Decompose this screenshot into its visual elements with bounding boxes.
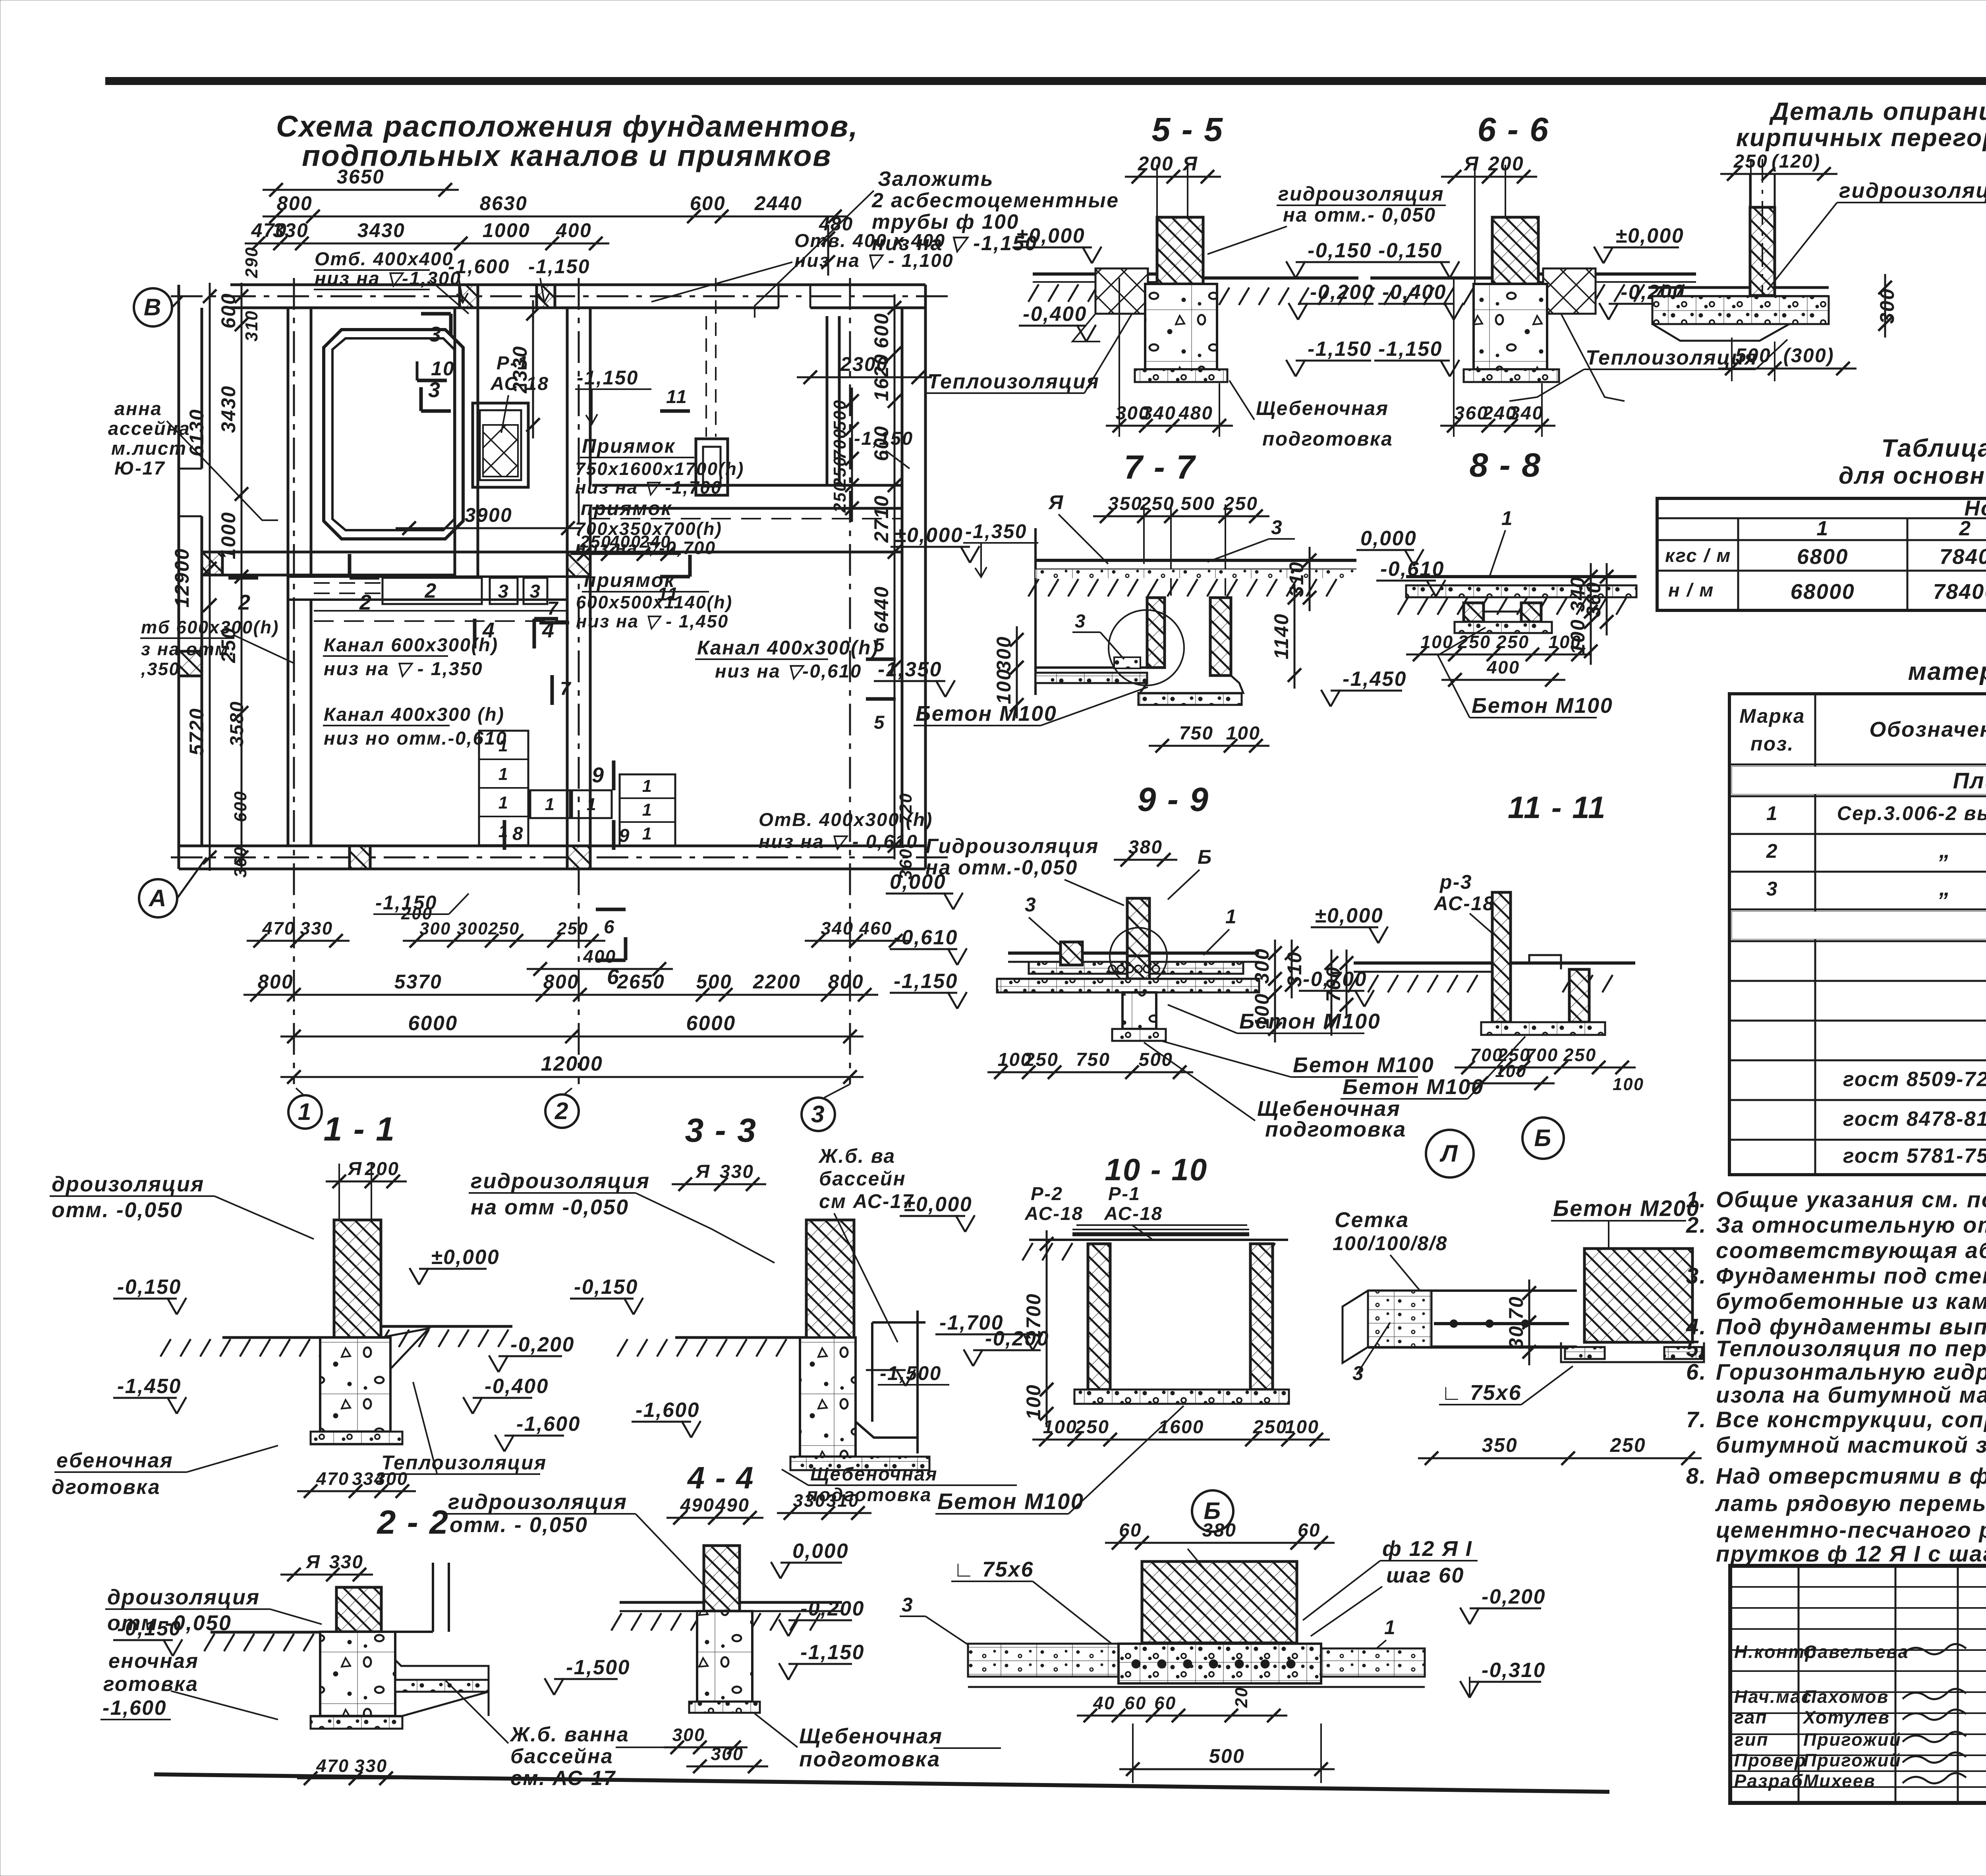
svg-text:-1,600: -1,600	[636, 1398, 700, 1421]
plan axis 2 dashdot	[578, 278, 580, 1084]
svg-text:5370: 5370	[394, 971, 442, 993]
svg-text:Савельева: Савельева	[1803, 1642, 1909, 1662]
svg-text:,350: ,350	[141, 659, 180, 679]
section marks 11	[660, 409, 690, 413]
svg-text:2440: 2440	[754, 192, 803, 214]
svg-text:10: 10	[431, 357, 455, 380]
1-1 level -1.600	[495, 1435, 504, 1451]
plan right vdim col	[894, 294, 896, 859]
svg-text:3: 3	[902, 1594, 914, 1616]
6-6 ground hatch left	[1364, 288, 1374, 305]
svg-text:гост 5781-75: гост 5781-75	[1843, 1144, 1986, 1167]
svg-text:2: 2	[359, 591, 373, 614]
svg-text:250: 250	[488, 919, 520, 938]
3-3 level -1.600	[682, 1421, 691, 1438]
svg-text:Р-1: Р-1	[1108, 1183, 1140, 1204]
svg-text:1: 1	[587, 795, 597, 814]
11-11 step line	[1510, 955, 1561, 969]
wall hatch patch top 1	[460, 285, 478, 308]
svg-text:подготовка: подготовка	[1262, 428, 1393, 450]
svg-text:8.: 8.	[1686, 1463, 1707, 1488]
label 3900 dim	[396, 527, 582, 529]
detail top dim	[1720, 173, 1837, 175]
rebar level -0.200	[1460, 1608, 1470, 1624]
7-7 level -1.450	[1321, 690, 1331, 706]
mesh vert dims	[1528, 1280, 1530, 1336]
title block frame	[1730, 1566, 1986, 1803]
11-11 floor lines	[1354, 961, 1492, 965]
svg-text:250: 250	[1024, 1049, 1059, 1070]
svg-text:4: 4	[482, 618, 496, 642]
svg-text:250: 250	[556, 919, 589, 938]
svg-text:Михеев: Михеев	[1803, 1771, 1876, 1791]
plan top dim row 3650	[263, 189, 459, 191]
interior wall H4	[288, 575, 567, 578]
svg-text:1: 1	[545, 795, 556, 814]
svg-text:1: 1	[298, 1098, 312, 1125]
wall hatch patch axis2 mid	[567, 552, 590, 577]
svg-text:бассейн: бассейн	[819, 1168, 906, 1190]
svg-text:низ на ▽ - 0,610: низ на ▽ - 0,610	[759, 831, 918, 852]
svg-text:2200: 2200	[753, 971, 801, 993]
5-5 insulation wedge	[1095, 268, 1148, 314]
svg-text:2710: 2710	[870, 495, 893, 543]
9-9 380 dim	[1114, 859, 1177, 861]
3-3 footing	[790, 1457, 929, 1470]
detail wall side lines	[1749, 175, 1751, 295]
title block left stamp rows	[1730, 1586, 1986, 1588]
svg-text:еночная: еночная	[108, 1649, 199, 1672]
svg-text:6000: 6000	[408, 1011, 458, 1035]
svg-text:9: 9	[619, 825, 630, 846]
svg-text:±0,000: ±0,000	[1315, 904, 1383, 927]
svg-text:Щебеночная: Щебеночная	[1256, 397, 1389, 419]
svg-text:4.: 4.	[1686, 1314, 1707, 1339]
svg-text:ОтВ. 400х300 (h): ОтВ. 400х300 (h)	[759, 809, 933, 830]
11-11 post wall	[1492, 892, 1511, 1022]
plan axis B dashdot	[171, 295, 953, 297]
svg-text:соответствующая абсолютной о: соответствующая абсолютной отм. на генпл…	[1716, 1238, 1986, 1263]
loads table header row	[1737, 540, 1739, 610]
10-10 gnd hatch right	[1265, 1243, 1275, 1260]
svg-text:низ на ▽ -1,700: низ на ▽ -1,700	[575, 477, 722, 498]
svg-text:Щебеночная: Щебеночная	[810, 1464, 938, 1485]
svg-text:700: 700	[831, 428, 850, 460]
svg-text:200: 200	[1138, 152, 1174, 175]
svg-text:6800: 6800	[1797, 545, 1849, 569]
svg-text:8630: 8630	[480, 192, 528, 214]
3-3 level -0.150	[624, 1298, 634, 1314]
svg-text:см. АС-17: см. АС-17	[510, 1766, 616, 1789]
spec subheader materials	[1732, 911, 1986, 939]
3-3 floor left	[675, 1336, 806, 1339]
wall hatch patch top 2	[537, 285, 555, 308]
svg-text:бутобетонные из камня М200: бутобетонные из камня М200 и бетона М100…	[1716, 1289, 1986, 1314]
svg-text:Заложить: Заложить	[878, 167, 994, 190]
right outer wall	[901, 308, 904, 846]
7-7 detail circle A	[1109, 610, 1184, 685]
rebar top dims	[1105, 1542, 1335, 1544]
svg-text:750: 750	[1076, 1049, 1111, 1070]
2-2 pier	[320, 1632, 395, 1716]
rebar slab mid	[1119, 1644, 1321, 1683]
signature squiggles	[1903, 1644, 1966, 1654]
svg-text:-0,610: -0,610	[894, 926, 958, 949]
svg-text:2: 2	[1766, 840, 1778, 862]
svg-text:прутков ф 12 Я I с шагом: прутков ф 12 Я I с шагом 60 мм.	[1716, 1541, 1986, 1566]
9-9 left hatched block	[1061, 942, 1082, 965]
6-6 teploizol leader	[1561, 314, 1625, 401]
svg-text:Деталь опирания: Деталь опирания	[1769, 98, 1986, 125]
svg-text:700: 700	[1525, 1045, 1558, 1065]
svg-text:-1,600: -1,600	[448, 255, 510, 278]
svg-text:3: 3	[811, 1100, 825, 1127]
svg-text:600х500х1140(h): 600х500х1140(h)	[576, 592, 733, 612]
svg-text:380: 380	[1128, 837, 1163, 858]
svg-text:низ на ▽-0,610: низ на ▽-0,610	[715, 661, 862, 682]
label 250-400-240 row	[570, 553, 681, 555]
svg-text:Бетон М100: Бетон М100	[1239, 1009, 1381, 1033]
svg-text:±0,000: ±0,000	[1016, 224, 1085, 247]
svg-text:330: 330	[720, 1161, 754, 1182]
7-7 level 0.000	[960, 546, 970, 563]
svg-text:подготовка: подготовка	[1265, 1117, 1406, 1141]
svg-text:8 - 8: 8 - 8	[1469, 446, 1541, 484]
svg-text:цементно-песчаного раствора: цементно-песчаного раствора М50	[1716, 1517, 1986, 1542]
svg-text:-0,150: -0,150	[1308, 239, 1372, 262]
canal plate cells 2-3-3	[383, 578, 482, 604]
svg-text:-1,450: -1,450	[117, 1374, 182, 1397]
svg-text:360: 360	[231, 846, 250, 878]
7-7 ground hatch under floor	[1028, 579, 1039, 596]
loads table frame	[1657, 498, 1986, 610]
svg-text:0,000: 0,000	[792, 1539, 849, 1562]
rebar bottom dims1	[1077, 1715, 1287, 1717]
rebar level -0.310	[1460, 1681, 1470, 1698]
wall hatch patch axis2 bottom	[567, 846, 590, 869]
svg-text:ф 12 Я I: ф 12 Я I	[1382, 1537, 1472, 1561]
9-9 lower slab	[997, 978, 1259, 980]
9-9 level 0.000	[944, 893, 953, 909]
canal inner lines 2	[590, 518, 902, 519]
wall hatch patch left mid	[202, 552, 222, 575]
svg-text:11: 11	[666, 386, 688, 407]
svg-text:-1,150: -1,150	[894, 969, 958, 992]
svg-text:330: 330	[329, 1552, 364, 1573]
svg-text:1: 1	[1225, 905, 1237, 928]
svg-text:Плиты перекрытия каналов: Плиты перекрытия каналов	[1953, 768, 1986, 793]
9-9 right vdims	[1274, 940, 1276, 992]
svg-text:-1,500: -1,500	[566, 1656, 630, 1679]
svg-text:АС-18: АС-18	[490, 373, 549, 394]
10-10 bottom slab	[1074, 1390, 1289, 1404]
svg-text:За относительную отм.±0,000 пр: За относительную отм.±0,000 принята отм.…	[1716, 1212, 1986, 1237]
svg-text:Теплоизоляция: Теплоизоляция	[1586, 346, 1758, 369]
pit P-1 outer	[473, 403, 528, 487]
5-5 bottom dims	[1106, 425, 1233, 427]
10-10 plate lines	[1072, 1229, 1249, 1230]
3-3 gnd hatch	[617, 1339, 628, 1357]
svg-text:-1,350: -1,350	[965, 520, 1027, 542]
svg-text:7: 7	[547, 598, 559, 619]
svg-text:250: 250	[1610, 1434, 1646, 1456]
svg-text:350: 350	[1108, 493, 1143, 514]
1-1 wall	[334, 1220, 381, 1338]
svg-text:лать рядовую перемычку с укл: лать рядовую перемычку с укладкой в слое	[1715, 1491, 1986, 1516]
svg-text:з на отм.: з на отм.	[141, 639, 235, 659]
canal ladder cells right	[620, 774, 675, 846]
svg-text:низ на ▽ - 1,450: низ на ▽ - 1,450	[576, 611, 729, 631]
svg-text:500: 500	[831, 399, 850, 431]
svg-text:600: 600	[217, 293, 240, 328]
title block left stamp verticals	[1798, 1566, 1800, 1803]
svg-text:300: 300	[993, 636, 1015, 672]
svg-text:300: 300	[457, 919, 489, 938]
section marks 2 pool	[350, 576, 379, 580]
rebar block break mark	[1188, 1549, 1207, 1573]
svg-text:330: 330	[273, 219, 309, 241]
svg-text:800: 800	[828, 971, 864, 993]
svg-text:400: 400	[609, 533, 641, 552]
svg-text:250: 250	[1223, 493, 1258, 514]
svg-text:(300): (300)	[1783, 344, 1834, 367]
svg-text:А: А	[148, 884, 167, 911]
section marks 9	[612, 760, 616, 790]
svg-text:1: 1	[1766, 802, 1778, 824]
8-8 small piers	[1464, 603, 1484, 622]
svg-text:Разраб: Разраб	[1734, 1771, 1804, 1791]
svg-text:3: 3	[530, 581, 541, 602]
4-4 level 0.000	[771, 1562, 780, 1579]
svg-text:5: 5	[874, 712, 885, 733]
5-5 concrete pier	[1145, 284, 1217, 369]
svg-text:7 - 7: 7 - 7	[1124, 448, 1196, 486]
page top border	[105, 77, 1986, 85]
svg-text:-0,400: -0,400	[1382, 280, 1447, 303]
svg-text:гип: гип	[1734, 1729, 1769, 1750]
svg-text:материалов на фундаменты: материалов на фундаменты	[1908, 658, 1986, 685]
svg-text:Хотулев: Хотулев	[1802, 1707, 1890, 1727]
5-5 footing	[1135, 369, 1227, 382]
1-1 pier	[320, 1338, 390, 1432]
pool outer wall	[324, 330, 463, 539]
svg-text:6 - 6: 6 - 6	[1477, 111, 1549, 148]
svg-text:400: 400	[583, 946, 616, 967]
svg-text:-0,200: -0,200	[1482, 1585, 1546, 1608]
svg-text:7: 7	[560, 678, 572, 699]
svg-text:∟ 75х6: ∟ 75х6	[1441, 1381, 1522, 1405]
section marks 5 right	[866, 658, 896, 661]
svg-text:гост 8478-81: гост 8478-81	[1843, 1107, 1986, 1130]
1-1 floor left	[222, 1336, 334, 1339]
svg-text:Р-1: Р-1	[496, 353, 529, 374]
svg-text:шаг 60: шаг 60	[1386, 1563, 1464, 1587]
svg-text:Общие указания см. пояснительн: Общие указания см. пояснительную записку…	[1716, 1187, 1986, 1212]
svg-text:310: 310	[1285, 561, 1308, 597]
svg-text:3: 3	[429, 322, 442, 346]
svg-text:Отб. 400х400: Отб. 400х400	[315, 249, 454, 270]
pit P-1 inner	[480, 410, 521, 480]
svg-text:3430: 3430	[357, 219, 406, 241]
svg-text:1: 1	[642, 777, 653, 796]
2-2 pool slab arm	[395, 1632, 489, 1680]
plan axis 3 dashdot	[849, 278, 851, 1084]
wall hatch patch left low	[179, 651, 202, 676]
svg-text:на отм.-0,050: на отм.-0,050	[925, 856, 1078, 879]
svg-text:Пахомов: Пахомов	[1803, 1687, 1889, 1707]
svg-text:±0,000: ±0,000	[894, 523, 963, 546]
svg-text:2: 2	[1959, 517, 1971, 540]
svg-text:100: 100	[1567, 619, 1589, 654]
5-5 level -1.150	[1286, 360, 1296, 376]
plan left vdim col B far	[209, 283, 211, 871]
9-9 wall through	[1127, 956, 1149, 979]
svg-text:250: 250	[1496, 632, 1529, 652]
svg-text:20: 20	[1232, 1687, 1251, 1708]
svg-text:-1,600: -1,600	[516, 1412, 581, 1435]
svg-text:300: 300	[711, 1744, 744, 1764]
svg-text:Я: Я	[305, 1552, 321, 1573]
3-3 level -0.200 right	[964, 1349, 973, 1366]
svg-text:АС-18: АС-18	[1104, 1203, 1163, 1224]
1-1 gnd hatch	[160, 1339, 171, 1357]
svg-text:5720: 5720	[185, 708, 208, 756]
svg-text:1: 1	[1501, 507, 1513, 529]
1-1 level 0.000	[410, 1268, 419, 1285]
interior wall H2 right part	[590, 551, 902, 554]
svg-text:Б: Б	[1534, 1124, 1552, 1151]
11-11 gnd hatch	[1348, 975, 1358, 992]
svg-text:2: 2	[424, 579, 437, 602]
10-10 top plank	[1072, 1232, 1249, 1236]
svg-text:250: 250	[831, 481, 850, 513]
svg-text:н / м: н / м	[1668, 580, 1714, 601]
svg-text:460: 460	[859, 918, 892, 938]
9-9 bottom dims	[987, 1071, 1193, 1073]
svg-text:-1,150: -1,150	[800, 1641, 865, 1664]
svg-text:низ но отм.-0,610: низ но отм.-0,610	[324, 728, 507, 749]
svg-text:-1,450: -1,450	[1343, 667, 1407, 690]
1-1 wedge	[381, 1328, 429, 1368]
svg-text:подготовка: подготовка	[799, 1747, 941, 1771]
mesh detail A circle	[1426, 1130, 1474, 1177]
svg-text:1600: 1600	[1158, 1417, 1204, 1438]
wall hatch patch bottom	[350, 846, 370, 869]
pit P-1 crosshatch	[483, 425, 518, 477]
rebar slab right	[1321, 1648, 1425, 1677]
svg-text:Бетон М100: Бетон М100	[916, 702, 1057, 726]
svg-text:Я: Я	[1048, 491, 1064, 513]
svg-text:Сетка: Сетка	[1335, 1208, 1409, 1232]
svg-text:дроизоляция: дроизоляция	[52, 1172, 205, 1196]
svg-text:бассейна: бассейна	[510, 1745, 613, 1768]
svg-text:-0,310: -0,310	[1482, 1658, 1546, 1681]
10-10 gnd hatch left	[1022, 1243, 1033, 1260]
plan top outer wall	[230, 284, 925, 286]
svg-text:-1,150: -1,150	[1378, 337, 1443, 360]
svg-text:2: 2	[554, 1097, 569, 1124]
flue dashed lines	[705, 316, 707, 437]
7-7 small rebar box	[1114, 657, 1140, 668]
svg-text:1: 1	[1816, 517, 1829, 540]
svg-text:отм. -0,050: отм. -0,050	[52, 1198, 183, 1222]
1-1 footing	[311, 1432, 402, 1444]
svg-text:6000: 6000	[686, 1011, 736, 1035]
svg-text:500: 500	[1209, 1745, 1245, 1767]
svg-text:Ж.б. ва: Ж.б. ва	[818, 1145, 896, 1167]
svg-text:0,000: 0,000	[1360, 527, 1417, 550]
svg-text:350: 350	[1482, 1434, 1518, 1456]
pool inner wall	[332, 338, 454, 530]
svg-text:290: 290	[242, 246, 261, 278]
2-2 level -0.150	[163, 1639, 173, 1656]
7-7 top dims	[1093, 515, 1269, 517]
svg-text:340: 340	[1509, 403, 1544, 424]
svg-text:Фундаменты под стены запрое: Фундаменты под стены запроектированы лен…	[1716, 1263, 1986, 1288]
svg-text:ебеночная: ебеночная	[56, 1449, 173, 1472]
svg-text:-0,150: -0,150	[117, 1617, 182, 1640]
axis bubble B	[134, 288, 172, 326]
svg-text:подготовка: подготовка	[806, 1484, 932, 1505]
svg-text:750: 750	[1179, 723, 1214, 744]
spec table horizontals	[1729, 764, 1986, 766]
spec table verticals	[1814, 694, 1816, 1175]
5-5 level -0.200	[1289, 303, 1298, 320]
svg-text:Над отверстиями в фундамента: Над отверстиями в фундаментах сде-	[1716, 1463, 1986, 1488]
svg-text:1000: 1000	[217, 511, 240, 560]
11-11 left vdims	[1346, 950, 1348, 1018]
svg-text:гост 8509-72: гост 8509-72	[1843, 1067, 1986, 1090]
svg-text:м.лист: м.лист	[111, 438, 187, 459]
svg-text:Бетон М200: Бетон М200	[1553, 1196, 1700, 1221]
svg-text:-1,600: -1,600	[102, 1696, 167, 1719]
6-6 bottom dims	[1440, 425, 1555, 427]
plan axis A dashdot	[171, 857, 953, 859]
6-6 level -1.150 left	[1440, 360, 1450, 376]
6-6 level -0.150 left	[1440, 261, 1450, 278]
svg-text:кгс / м: кгс / м	[1665, 545, 1731, 566]
svg-text:гидроизоляция: гидроизоляция	[471, 1169, 650, 1193]
section marks 7	[539, 621, 569, 625]
svg-text:Сер.3.006-2 вып. II-2: Сер.3.006-2 вып. II-2	[1837, 802, 1986, 824]
svg-text:на отм -0,050: на отм -0,050	[471, 1195, 629, 1219]
svg-text:3: 3	[1271, 516, 1283, 538]
svg-text:300: 300	[672, 1725, 705, 1745]
8-8 gnd hatch	[1398, 597, 1408, 615]
svg-text:3430: 3430	[217, 385, 240, 433]
wall between pool and pits	[454, 308, 456, 577]
svg-text:78400: 78400	[1933, 580, 1986, 604]
svg-text:Канал 400х300 (h): Канал 400х300 (h)	[324, 704, 504, 725]
svg-text:12900: 12900	[171, 548, 193, 608]
10-10 left vdims	[1046, 1230, 1048, 1403]
plan axis 1 dashdot	[293, 278, 295, 1084]
6-6 level 0.000 right	[1594, 247, 1603, 263]
3-3 pier	[800, 1338, 856, 1457]
svg-text:60: 60	[1298, 1520, 1321, 1541]
svg-text:380: 380	[1202, 1520, 1237, 1541]
svg-text:гап: гап	[1734, 1707, 1768, 1727]
svg-text:470: 470	[316, 1756, 349, 1776]
8-8 right vdims	[1590, 563, 1592, 625]
svg-text:30: 30	[1505, 1325, 1527, 1349]
5-5 level -0.400	[1077, 325, 1086, 342]
rebar bottom dims2	[1119, 1768, 1335, 1770]
mesh bottom angle	[1561, 1342, 1704, 1362]
mesh right big block	[1584, 1249, 1692, 1342]
3-3 bottom dims	[777, 1512, 871, 1514]
svg-text:400: 400	[556, 219, 592, 241]
